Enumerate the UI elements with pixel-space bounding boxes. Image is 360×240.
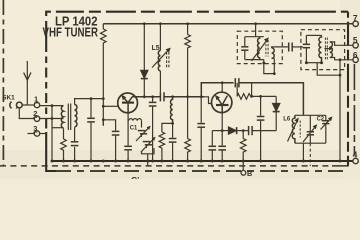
resistor R7 xyxy=(240,139,246,161)
wire tank2 ground drop xyxy=(317,63,340,75)
inductor emitter choke xyxy=(128,119,141,121)
svg-text:Ci: Ci xyxy=(131,175,140,179)
svg-text:6: 6 xyxy=(353,50,358,60)
svg-text:SK1: SK1 xyxy=(2,95,15,102)
wire bypass cap branch xyxy=(260,96,262,161)
wire terminal 3 to box border xyxy=(40,133,47,135)
wire cap C13 branch xyxy=(221,131,223,161)
node top rail junctions xyxy=(143,22,257,25)
diode D2 xyxy=(273,103,280,111)
wire bias stub bottom xyxy=(102,120,104,126)
wire ground bus xyxy=(52,160,353,162)
trimmer C1 upper section xyxy=(136,126,150,141)
inductor L5 variable xyxy=(152,50,169,71)
svg-text:B: B xyxy=(247,169,252,178)
tuner box top border xyxy=(46,12,348,42)
transistor Q1 xyxy=(118,93,138,113)
outer frame left dash-dot line xyxy=(2,0,4,166)
wire L5 branch lower xyxy=(159,71,161,92)
wire terminal 2 into box xyxy=(40,118,64,120)
terminal 1 xyxy=(34,102,39,107)
variable capacitor arrowhead xyxy=(313,124,318,129)
wire resistor branch to rail xyxy=(187,49,189,97)
capacitor C9 xyxy=(197,124,205,128)
capacitor C11 xyxy=(257,117,265,121)
node bypass junction xyxy=(259,95,262,98)
capacitor coupling series xyxy=(289,43,293,52)
transformer T2 primary winding xyxy=(319,35,322,62)
resistor R1 xyxy=(101,29,107,44)
wire cap C8 riser xyxy=(172,123,174,161)
wire rail 2 to tank xyxy=(239,83,304,116)
node rail junctions xyxy=(171,95,202,98)
resistor R4 xyxy=(185,35,191,49)
wire terminal 3 stub xyxy=(28,133,35,135)
wire coupling top xyxy=(272,47,288,48)
transformer T1 secondary winding xyxy=(75,105,77,127)
wire terminal B drop xyxy=(242,161,244,170)
wire tank2 bottom rail xyxy=(306,62,321,64)
wire primary bottom xyxy=(52,127,64,129)
terminal 2 xyxy=(34,116,39,121)
wire bias line vertical xyxy=(102,44,104,126)
tuner box left border xyxy=(46,42,56,171)
wire emitter dc branch xyxy=(127,121,129,161)
resistor R6 xyxy=(237,94,251,100)
capacitor C12 xyxy=(209,146,217,150)
shield box 1 (dashed) xyxy=(237,31,282,63)
node ground bus junctions xyxy=(51,160,342,163)
capacitor C3 input xyxy=(71,142,79,146)
capacitor C6 series xyxy=(160,92,164,101)
wire input return vertical xyxy=(51,106,53,161)
wire tuning cap branch xyxy=(309,115,311,143)
trimmer C2 arrowhead xyxy=(328,116,333,121)
terminal B xyxy=(241,170,246,175)
transformer T1 core xyxy=(68,104,70,131)
svg-text:C1: C1 xyxy=(130,125,138,132)
wire tank1 bottom drop xyxy=(264,58,275,73)
transformer T2 secondary winding xyxy=(330,42,333,58)
resistor R5 xyxy=(185,139,191,161)
wire tank3 bottom rail xyxy=(295,142,326,144)
wire C14 to D2 riser xyxy=(252,130,276,132)
wire collector rail Q1 xyxy=(133,96,160,98)
socket SK1 pin circle xyxy=(16,102,22,108)
wire AGC line right xyxy=(252,95,277,97)
wire diode branch upper xyxy=(143,24,145,71)
terminal 3 xyxy=(34,131,39,136)
capacitor C14 series xyxy=(249,126,253,135)
transformer T1 primary winding xyxy=(61,106,63,128)
wire secondary to terminal 5 xyxy=(330,42,353,45)
socket SK1 plug arc xyxy=(10,102,12,109)
wire base lead Q1 xyxy=(103,105,119,107)
wire R6 node up to rail2 xyxy=(251,83,253,97)
wire secondary top lead xyxy=(75,99,104,105)
wire tank1 cap branch xyxy=(244,37,246,60)
inductor interstage coil xyxy=(171,97,173,124)
wire emitter to C1 xyxy=(141,121,143,128)
wire secondary to terminal 6 xyxy=(330,58,353,60)
wire coil bottom jog xyxy=(162,123,173,132)
wire C2 branch xyxy=(325,115,327,143)
wire base jog Q2 xyxy=(204,97,211,104)
wire diode D2 lower xyxy=(275,112,277,131)
terminal 5 xyxy=(353,43,358,48)
wire diode D3 to cap xyxy=(237,130,249,132)
svg-text:5: 5 xyxy=(353,35,358,45)
resistor R2 input xyxy=(61,139,67,161)
svg-text:3: 3 xyxy=(33,124,37,133)
wire diode branch lower xyxy=(143,79,145,97)
node R6 right xyxy=(221,81,253,97)
transformer T2 core arrow xyxy=(325,48,331,50)
wire tank3 top rail xyxy=(295,114,326,116)
wire top rail corner xyxy=(102,24,104,29)
wire bus to border tie xyxy=(147,161,149,166)
trimmer C1 lower arrowhead xyxy=(152,137,156,141)
antenna input arrow xyxy=(24,61,31,105)
wire rail after C6 xyxy=(164,96,204,98)
node bias junctions xyxy=(102,105,105,121)
wire Q2 collector riser xyxy=(221,83,223,92)
tuner box right border xyxy=(347,12,349,166)
diode D1 xyxy=(141,70,148,78)
wire AGC resistor branch xyxy=(242,131,244,139)
chassis ground dash line xyxy=(0,165,349,167)
inductor tank1 coil xyxy=(252,37,269,61)
svg-text:2: 2 xyxy=(33,109,37,118)
node ground return xyxy=(339,58,342,76)
diode D3 xyxy=(228,127,236,134)
node tank2 bottom xyxy=(305,61,323,64)
node coupling link xyxy=(262,62,275,76)
wire tank2 top rail xyxy=(306,34,321,36)
shield box 2 (dashed) xyxy=(301,30,345,70)
inductor tank1 arrowhead xyxy=(264,37,269,42)
svg-text:L5: L5 xyxy=(152,43,160,52)
wire coupling to box2 xyxy=(292,46,303,48)
inductor L6 variable xyxy=(288,115,301,143)
wire tank1 top rail xyxy=(245,36,264,38)
capacitor C7 xyxy=(149,102,157,106)
wire Q2 emitter lead xyxy=(221,113,223,131)
wire L5 branch upper xyxy=(159,24,161,51)
tuner box bottom border (dashed) xyxy=(56,170,349,172)
wire primary bottom lead xyxy=(63,128,65,139)
trimmer C1 upper arrowhead xyxy=(147,126,151,130)
transformer T2 core xyxy=(325,38,327,60)
inductor coupling coil xyxy=(272,48,275,58)
wire cap C4 riser xyxy=(90,99,92,161)
wire terminal 1 into box xyxy=(40,105,64,107)
capacitor C5 xyxy=(112,131,120,135)
wire emitter line to diode D3 xyxy=(222,130,228,132)
wire tank3 ground drop xyxy=(302,143,304,161)
wire ground return vertical xyxy=(339,60,341,161)
transistor Q1 emitter arrowhead xyxy=(121,95,126,101)
capacitor C8 xyxy=(169,139,177,143)
wire C1 gang yoke xyxy=(141,134,154,161)
wire SK1 to terminal 1 xyxy=(22,104,34,106)
wire bias to cap branch xyxy=(103,120,115,161)
capacitor C10 series xyxy=(235,78,239,87)
resistor R3 xyxy=(159,132,165,161)
wire tank1 riser xyxy=(255,24,257,37)
svg-text:L6: L6 xyxy=(283,115,290,122)
wire top supply rail xyxy=(103,23,353,25)
wire Q1 emitter lead xyxy=(127,113,129,119)
svg-text:1: 1 xyxy=(34,95,38,104)
terminal 7 xyxy=(353,21,358,26)
capacitor tank1 xyxy=(241,47,248,50)
node input dots xyxy=(51,104,54,120)
wire emitter line left xyxy=(212,130,222,132)
capacitor C4 xyxy=(87,118,95,122)
wire cap branch riser xyxy=(152,97,154,161)
wire collector rail 2 xyxy=(201,83,233,97)
node secondary top xyxy=(90,97,105,100)
wire resistor branch lower xyxy=(187,97,189,139)
inductor L5 arrowhead xyxy=(166,48,171,53)
inductor L6 arrowhead xyxy=(294,118,298,123)
svg-text:7: 7 xyxy=(353,13,358,23)
node collector junctions xyxy=(143,95,154,98)
trimmer C1 lower section xyxy=(141,137,155,152)
background paper xyxy=(0,0,360,179)
wire diode D2 upper xyxy=(275,96,277,103)
trimmer C2 xyxy=(321,118,332,129)
svg-text:VHF TUNER: VHF TUNER xyxy=(43,25,99,39)
svg-text:C2: C2 xyxy=(317,116,325,123)
wire tank1 bottom rail xyxy=(245,59,264,61)
wire tank2 cap branch xyxy=(305,35,307,62)
wire secondary bottom lead xyxy=(74,127,76,161)
terminal 4 xyxy=(353,158,358,163)
wire cap C12 branch xyxy=(211,131,213,161)
transistor Q2 emitter arrowhead xyxy=(215,95,220,101)
wire tank3 shield dashes xyxy=(309,143,311,166)
capacitor tank2 xyxy=(303,44,310,47)
wire resistor branch upper xyxy=(187,24,189,35)
wire AGC resistor drop xyxy=(236,83,238,97)
variable capacitor tuning xyxy=(303,126,316,142)
svg-text:4: 4 xyxy=(353,150,358,160)
outer frame right dash-dot line xyxy=(353,64,355,155)
transistor Q2 xyxy=(212,92,232,112)
capacitor C15 xyxy=(124,146,132,150)
wire SK1 down to terminal 2 xyxy=(19,108,34,119)
node coil bottom xyxy=(171,122,174,125)
node emitter junctions xyxy=(221,129,245,132)
wire base cap branch xyxy=(200,97,202,161)
capacitor C13 xyxy=(218,146,226,150)
terminal 6 xyxy=(353,57,358,62)
